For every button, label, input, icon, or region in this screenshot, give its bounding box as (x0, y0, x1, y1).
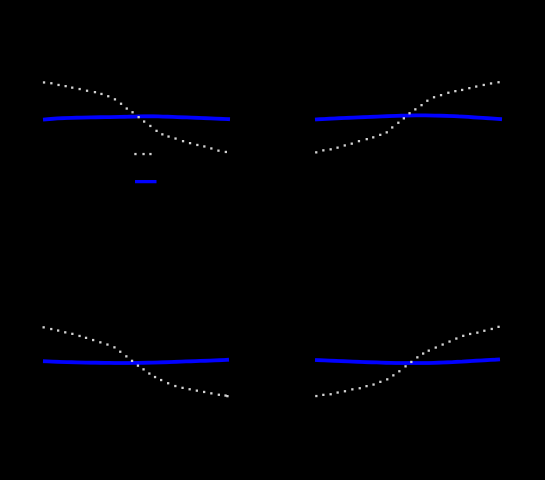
blue smoother line panel top-right (315, 115, 502, 119)
blue smoother line panel bottom-left (43, 360, 229, 363)
dotted sigmoid curve panel top-right (315, 81, 500, 153)
blue smoother line panel bottom-right (315, 359, 500, 363)
dotted sigmoid curve panel bottom-right (315, 326, 499, 397)
dotted sigmoid curve panel top-left (43, 81, 227, 153)
blue smoother line panel top-left (43, 116, 230, 119)
legend dotted sample top-left panel (134, 153, 151, 155)
legend blue line sample top-left panel (135, 180, 157, 183)
dotted sigmoid curve panel bottom-left (43, 326, 229, 397)
